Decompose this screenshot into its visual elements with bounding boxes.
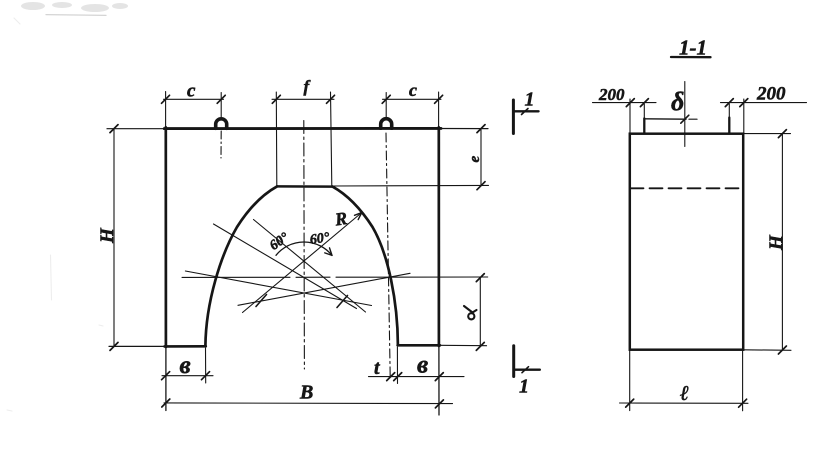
label gamma [464, 306, 477, 319]
dimension 200 right [721, 99, 807, 134]
arch left side [205, 186, 277, 346]
svg-text:1-1: 1-1 [679, 36, 707, 60]
svg-text:c: c [187, 81, 196, 102]
section dashed line [631, 187, 743, 189]
dimension 200 left [593, 99, 657, 133]
block vertical centerline [303, 121, 306, 370]
svg-text:c: c [409, 80, 417, 100]
dimension H right [743, 130, 791, 354]
dimension t and v right [369, 347, 465, 384]
right leg bottom [398, 344, 487, 347]
dimension f [272, 92, 335, 186]
dimension e [333, 125, 489, 190]
dimension c left [162, 92, 226, 128]
lifting loop 1 [216, 119, 227, 129]
section mark 1 top [513, 100, 538, 134]
construction steep line mirror [254, 220, 366, 313]
svg-text:в: в [417, 352, 428, 379]
rib right bar [728, 118, 730, 134]
dimension L [620, 350, 749, 411]
construction horizontal through arc centre [182, 276, 488, 278]
scan smudges top-left (decorative) [21, 2, 128, 12]
dimension B [162, 399, 453, 408]
section mark 1 bottom [514, 346, 540, 377]
construction shallow line down-left [238, 273, 410, 305]
svg-text:H: H [766, 234, 787, 251]
right outer edge [437, 127, 440, 415]
svg-text:t: t [374, 357, 381, 379]
dimension c right [382, 92, 442, 127]
svg-text:200: 200 [598, 85, 625, 104]
svg-text:B: B [299, 382, 313, 404]
svg-text:1: 1 [525, 89, 535, 111]
arch right side [333, 187, 398, 345]
construction radial line 60-left (through centre O) [214, 224, 357, 309]
construction shallow line down-right [185, 271, 371, 306]
dimension gamma [476, 274, 484, 351]
left leg bottom [109, 345, 206, 347]
svg-text:R: R [333, 208, 349, 230]
svg-text:в: в [180, 352, 191, 379]
rib centreline [681, 82, 689, 147]
lifting loop 2 [381, 119, 392, 129]
svg-text:1: 1 [519, 376, 529, 398]
arc-centre tick right [337, 296, 348, 308]
top edge [107, 127, 488, 129]
svg-text:f: f [304, 77, 312, 96]
left outer edge [164, 127, 167, 410]
rib left bar [643, 118, 645, 133]
rib top line [644, 118, 686, 120]
svg-text:200: 200 [756, 84, 786, 105]
rib top dash continuation [689, 118, 697, 120]
dimension H left [110, 125, 118, 351]
arch flat top [277, 185, 333, 188]
dimension v left [162, 348, 213, 383]
section outline [630, 134, 743, 350]
loop 2 centerline (dash-dot) [386, 133, 390, 376]
arc-centre tick left [256, 295, 267, 307]
svg-text:H: H [97, 227, 118, 244]
construction radial line R (arrow at arch) [243, 213, 362, 313]
loop 1 stem [220, 131, 222, 158]
section title underline [671, 56, 711, 59]
angle arc with arrow [276, 242, 332, 255]
svg-text:ℓ: ℓ [680, 381, 689, 405]
svg-text:δ: δ [671, 87, 684, 116]
svg-text:e: e [467, 156, 483, 163]
svg-text:60°: 60° [309, 230, 331, 248]
